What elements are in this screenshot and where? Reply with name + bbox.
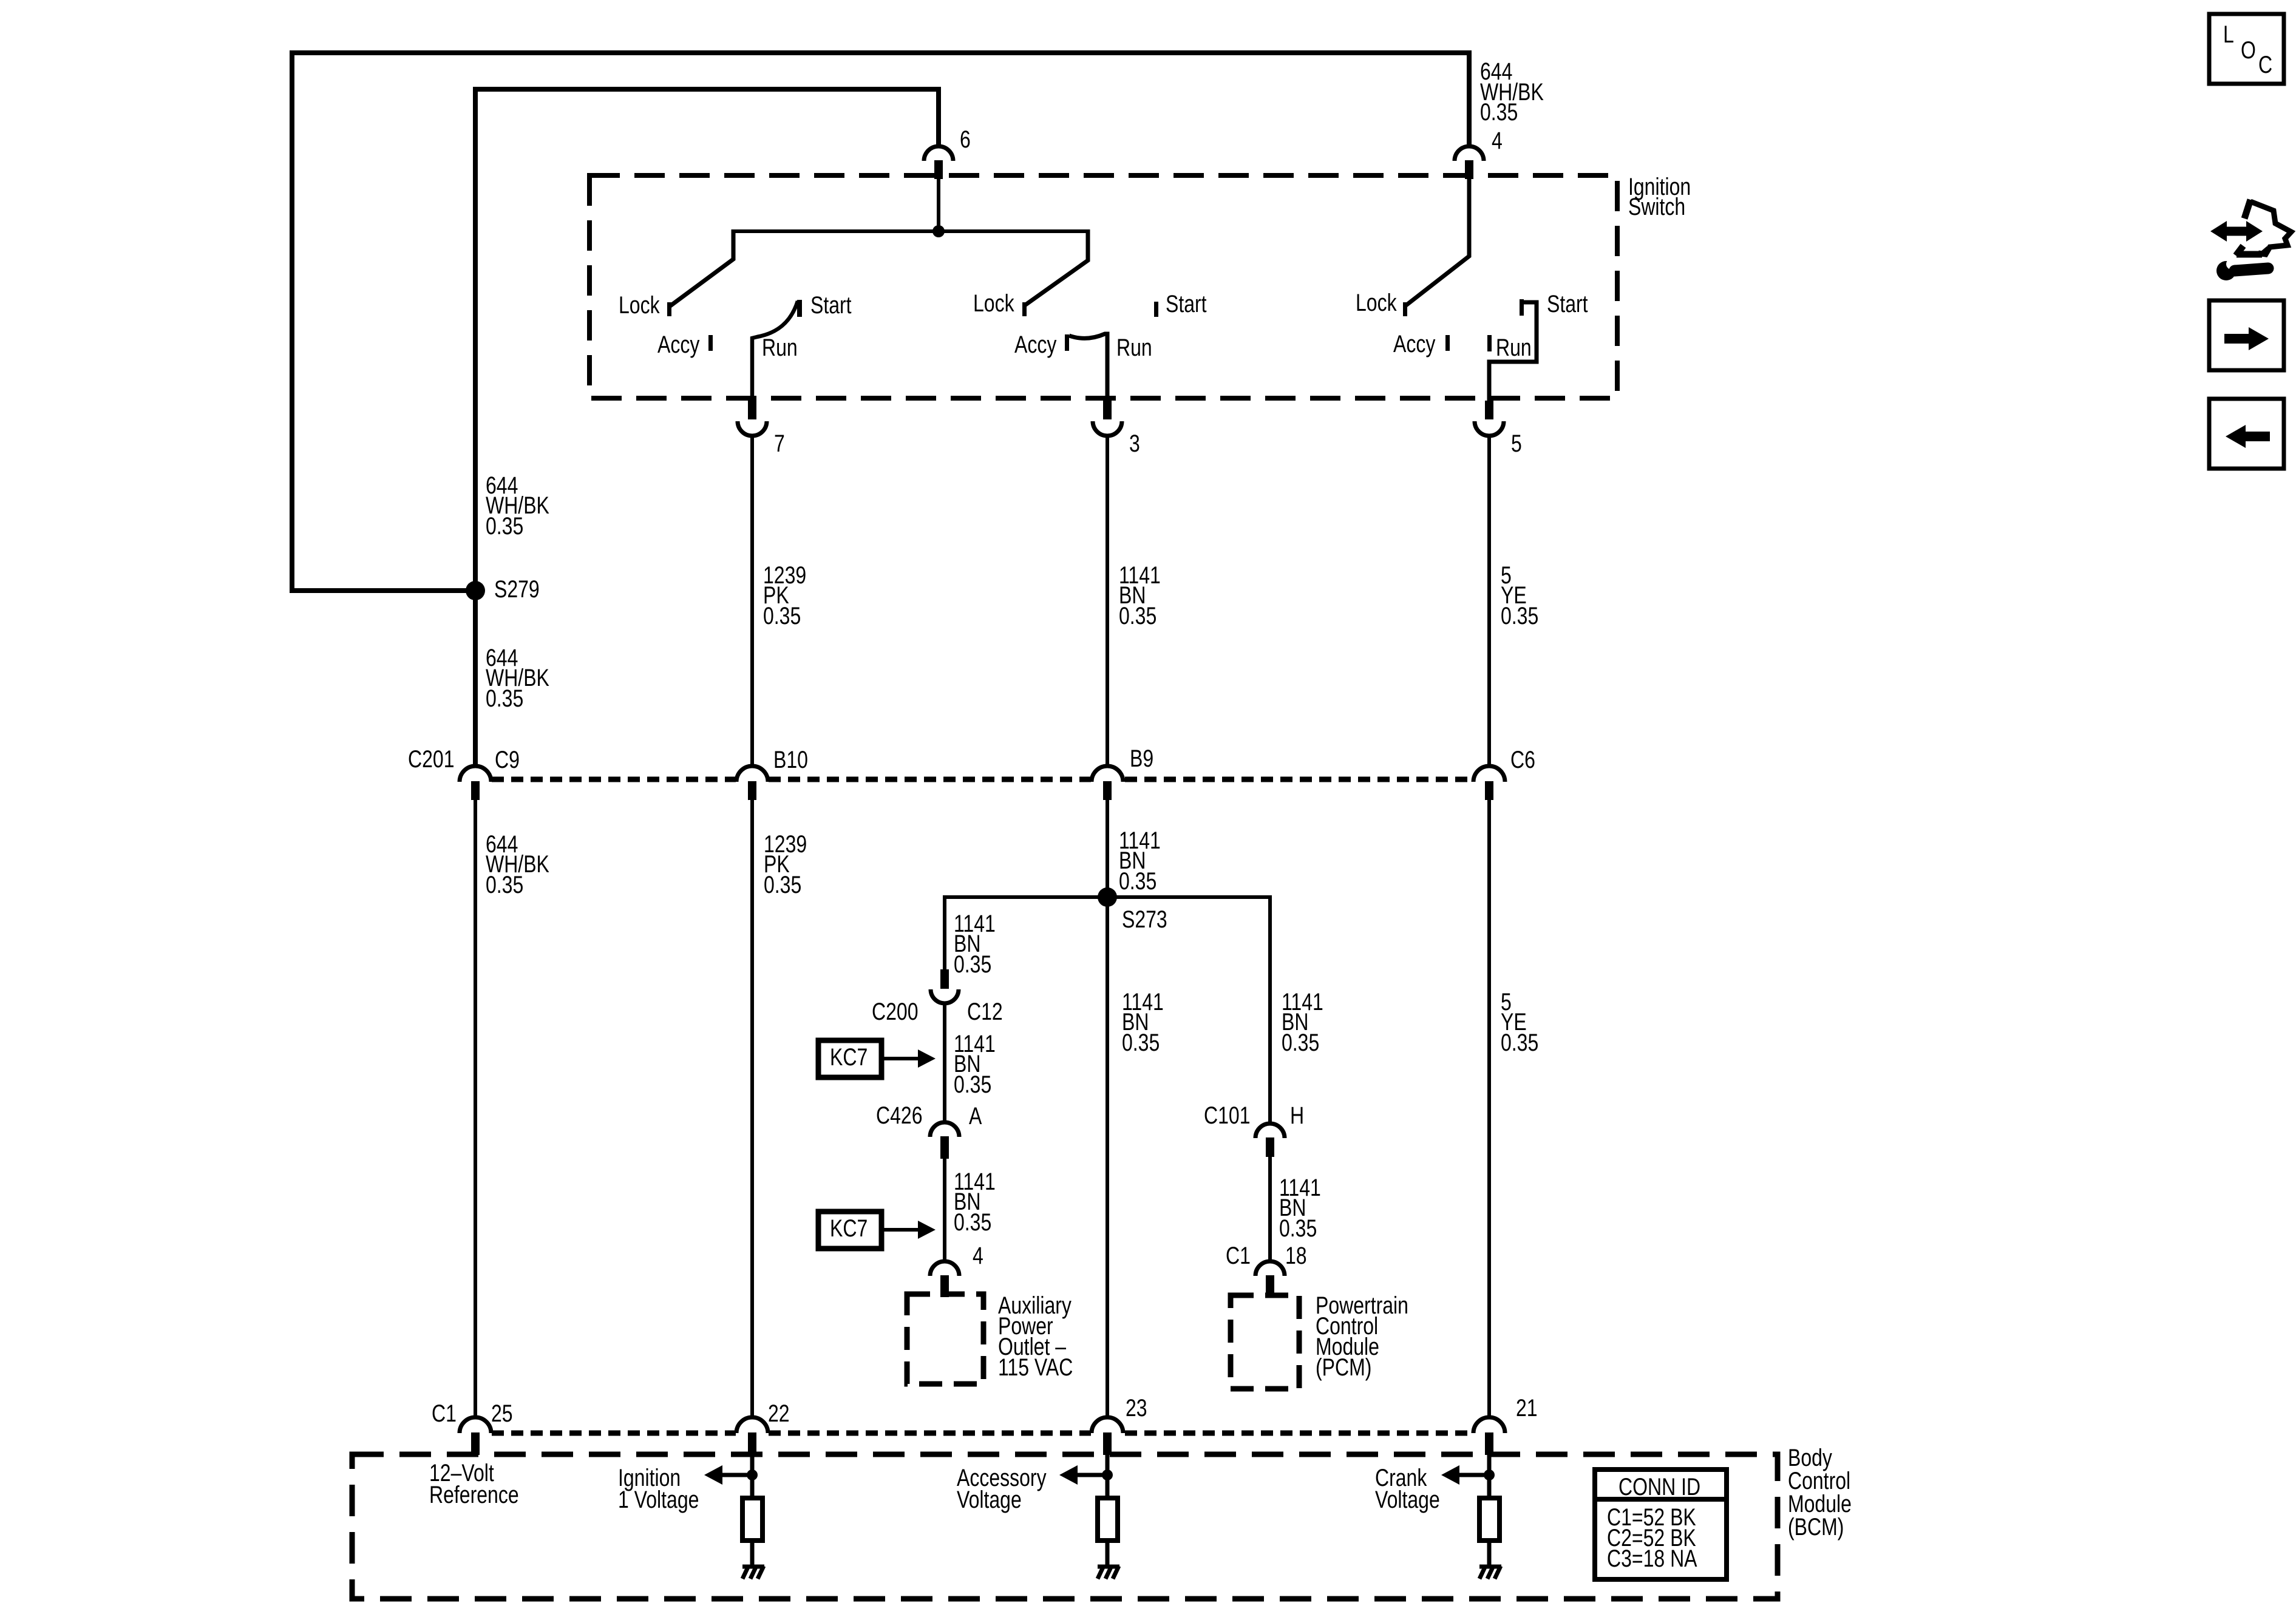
wire column B vertical 644 WH/BK	[473, 87, 478, 766]
resistor 23	[1098, 1498, 1118, 1541]
connector C6	[1473, 766, 1505, 800]
svg-text:C3=18 NA: C3=18 NA	[1607, 1545, 1697, 1572]
connector 5	[1475, 401, 1504, 436]
wire S273 branch bus	[945, 895, 1270, 899]
wire switch pivot bus	[733, 229, 1088, 233]
connector C101 H	[1255, 1124, 1285, 1157]
BCM internal circuit Ignition 1 Voltage	[704, 1455, 764, 1579]
KC7 callout box 2	[818, 1212, 936, 1249]
svg-text:Lock: Lock	[1356, 289, 1397, 316]
switch3 Run contact tick	[1487, 335, 1492, 351]
SEG2	[475, 800, 1489, 1418]
svg-text:0.35: 0.35	[486, 871, 523, 898]
connector 22	[736, 1417, 768, 1455]
svg-text:0.35: 0.35	[1501, 1029, 1538, 1056]
hand outline top stroke	[2244, 200, 2250, 219]
wire column D B9 to 23 through S273	[1106, 800, 1109, 1418]
double arrow	[2225, 227, 2248, 236]
svg-text:B9: B9	[1130, 745, 1153, 772]
svg-text:C9: C9	[495, 746, 520, 773]
svg-text:Start: Start	[810, 291, 852, 319]
svg-text:Reference: Reference	[429, 1481, 519, 1508]
svg-text:0.35: 0.35	[764, 871, 801, 898]
svg-text:0.35: 0.35	[1282, 1029, 1319, 1056]
svg-text:C1: C1	[1226, 1242, 1251, 1269]
arrow Ignition 1 Voltage	[722, 1473, 754, 1477]
connector C200 C12	[931, 969, 959, 1003]
wire 22 into BCM	[750, 1455, 755, 1498]
CONN ID table	[1595, 1470, 1727, 1579]
SEG1	[752, 436, 1489, 766]
switch1 Accy contact tick	[708, 335, 713, 351]
svg-text:Voltage: Voltage	[957, 1486, 1022, 1513]
node 21	[1484, 1470, 1495, 1480]
Auxiliary Power Outlet box	[907, 1294, 983, 1384]
BCM internal circuit Crank Voltage	[1441, 1455, 1501, 1579]
wire S273 right branch down to C101	[1268, 895, 1272, 1124]
wire resistor to ground 22	[750, 1541, 755, 1566]
svg-text:O: O	[2241, 36, 2256, 64]
hand outline	[2250, 202, 2291, 254]
wire vertical to connector 4	[1467, 50, 1472, 146]
svg-text:Lock: Lock	[973, 290, 1014, 317]
connector C9	[460, 766, 491, 800]
svg-text:0.35: 0.35	[1119, 602, 1156, 629]
wire resistor to ground 21	[1487, 1541, 1492, 1566]
wire column C B10 to 22	[750, 800, 754, 1418]
connector C426 A	[930, 1122, 959, 1159]
wire switch3 vertical from connector 4	[1406, 176, 1469, 305]
connector C1 18	[1255, 1261, 1285, 1297]
svg-text:KC7: KC7	[830, 1043, 868, 1071]
repair instructions icon	[2210, 200, 2291, 280]
svg-text:L: L	[2223, 21, 2234, 48]
wire 23 into BCM	[1106, 1455, 1110, 1498]
svg-text:Accy: Accy	[1014, 331, 1057, 358]
junction node inside ignition switch	[932, 225, 945, 237]
switch3 Accy contact tick	[1445, 335, 1450, 351]
connector row C201 dotted line	[492, 777, 1473, 782]
arrow Crank Voltage	[1459, 1473, 1491, 1477]
node 23	[1102, 1470, 1113, 1480]
svg-text:H: H	[1290, 1102, 1304, 1129]
wire left vertical 644 feed	[290, 50, 294, 591]
svg-text:22: 22	[768, 1400, 790, 1427]
svg-text:4: 4	[1492, 127, 1503, 154]
LOC legend box	[2209, 14, 2284, 84]
ground 21	[1479, 1565, 1501, 1569]
svg-text:C101: C101	[1204, 1102, 1251, 1129]
node 22	[747, 1470, 758, 1480]
svg-text:Accy: Accy	[1393, 330, 1436, 358]
wire top feed 644 WH/BK horizontal	[292, 50, 1469, 55]
wire S279 horizontal link	[290, 588, 475, 593]
resistor 21	[1479, 1498, 1500, 1541]
svg-text:6: 6	[960, 126, 971, 153]
connector 6	[924, 146, 953, 179]
Powertrain Control Module box	[1231, 1295, 1299, 1389]
switch3 Start contact tick	[1520, 299, 1524, 316]
wire 21 into BCM	[1487, 1455, 1492, 1498]
wire resistor to ground 23	[1106, 1541, 1110, 1566]
svg-text:0.35: 0.35	[486, 512, 523, 540]
connector C1 25	[460, 1417, 491, 1455]
svg-text:4: 4	[973, 1242, 983, 1269]
svg-text:S279: S279	[494, 575, 540, 603]
resistor 22	[742, 1498, 763, 1541]
svg-text:115 VAC: 115 VAC	[998, 1354, 1073, 1381]
forward arrow box	[2209, 300, 2284, 370]
svg-text:Run: Run	[1116, 334, 1152, 361]
svg-text:Voltage: Voltage	[1375, 1486, 1440, 1513]
wire ignition feed below connector 6	[937, 176, 940, 231]
svg-text:0.35: 0.35	[1119, 867, 1156, 895]
svg-text:(PCM): (PCM)	[1316, 1354, 1371, 1381]
wire switch1 pivot jog	[670, 229, 733, 306]
ignition switch dashed box	[589, 175, 1617, 398]
wire 5 YE column below connector 5	[1487, 436, 1491, 766]
node S273	[1098, 887, 1117, 907]
svg-text:0.35: 0.35	[1279, 1215, 1317, 1242]
svg-text:5: 5	[1511, 430, 1522, 457]
wire 1239 PK column below connector 7	[750, 436, 754, 766]
Body Control Module dashed box	[352, 1454, 1778, 1599]
svg-text:0.35: 0.35	[954, 951, 991, 978]
svg-text:S273: S273	[1122, 906, 1167, 933]
switch2 Start contact tick	[1154, 302, 1158, 317]
svg-text:A: A	[969, 1102, 982, 1130]
svg-text:0.35: 0.35	[763, 602, 801, 629]
connector Aux pin 4	[930, 1261, 959, 1297]
svg-text:25: 25	[491, 1400, 513, 1427]
wire column B C9 to C1-25	[474, 800, 477, 1418]
svg-text:0.35: 0.35	[1122, 1029, 1160, 1056]
wire 1141 BN column below connector 3	[1106, 436, 1109, 766]
svg-text:C12: C12	[967, 998, 1003, 1025]
connector B10	[736, 766, 768, 800]
svg-text:3: 3	[1129, 430, 1140, 457]
switch1 Start contact tick	[797, 300, 802, 317]
svg-text:18: 18	[1285, 1242, 1307, 1269]
svg-text:0.35: 0.35	[486, 685, 523, 712]
switch2 Accy contact tick	[1065, 334, 1069, 351]
wire below C426 bar to Aux pin 4	[943, 1158, 946, 1263]
svg-text:0.35: 0.35	[1480, 98, 1518, 126]
svg-text:1 Voltage: 1 Voltage	[618, 1486, 699, 1513]
connector 23	[1092, 1417, 1123, 1455]
svg-text:0.35: 0.35	[1501, 602, 1538, 629]
wire switch1 wiper to Run	[752, 301, 798, 401]
KC7 callout box 1	[818, 1040, 936, 1077]
svg-text:Switch: Switch	[1628, 193, 1685, 220]
svg-text:B10: B10	[773, 746, 808, 773]
BCM internal circuit Accessory Voltage	[1059, 1455, 1119, 1579]
svg-text:C: C	[2258, 51, 2272, 78]
svg-text:Run: Run	[1496, 334, 1532, 361]
wire below C200 cup to C426	[943, 1002, 946, 1123]
switch3 Lock contact tick	[1403, 302, 1407, 316]
svg-text:C6: C6	[1510, 746, 1535, 773]
svg-text:C1: C1	[432, 1400, 457, 1427]
wire below C101 bar to C1-18	[1268, 1157, 1272, 1262]
node S279	[466, 581, 485, 600]
wire vertical to connector 6	[936, 87, 941, 146]
BCM connector row dotted line	[492, 1431, 1473, 1436]
svg-text:21: 21	[1516, 1394, 1538, 1422]
svg-text:Start: Start	[1166, 290, 1207, 317]
svg-text:C201: C201	[408, 745, 455, 773]
svg-text:Run: Run	[762, 334, 798, 361]
svg-text:0.35: 0.35	[954, 1071, 991, 1098]
connector B9	[1092, 766, 1123, 800]
svg-text:(BCM): (BCM)	[1788, 1513, 1844, 1541]
wire switch2 pivot jog	[1025, 229, 1088, 305]
connector 7	[738, 401, 767, 436]
arrow Accessory Voltage	[1078, 1473, 1109, 1477]
ground 23	[1098, 1565, 1119, 1569]
switch2 Lock contact tick	[1022, 302, 1027, 316]
svg-text:CONN ID: CONN ID	[1618, 1473, 1700, 1500]
ground 22	[742, 1565, 764, 1569]
svg-text:7: 7	[774, 430, 785, 457]
wrench	[2216, 261, 2236, 280]
wire switch3 wiper hook from Start	[1489, 302, 1537, 401]
switch1 Lock contact tick	[667, 302, 671, 316]
connector 4	[1455, 146, 1484, 179]
connector 3	[1093, 401, 1122, 436]
wire switch2 wiper from Accy	[1069, 334, 1107, 401]
wire column E C6 to 21	[1487, 800, 1491, 1418]
wire second feed horizontal	[475, 87, 939, 92]
svg-text:23: 23	[1126, 1394, 1147, 1422]
svg-text:C426: C426	[876, 1102, 923, 1129]
connector 21	[1473, 1417, 1505, 1455]
svg-text:0.35: 0.35	[954, 1209, 991, 1236]
svg-text:C200: C200	[872, 998, 919, 1025]
hand lower band	[2237, 251, 2262, 258]
svg-text:Start: Start	[1547, 290, 1588, 317]
svg-text:KC7: KC7	[830, 1215, 868, 1242]
wire switch1 output to connector 7	[750, 337, 754, 401]
back arrow box	[2209, 399, 2284, 469]
wire S273 left branch down to C200	[943, 895, 946, 970]
svg-text:Lock: Lock	[619, 291, 660, 319]
svg-text:Accy: Accy	[657, 331, 700, 358]
